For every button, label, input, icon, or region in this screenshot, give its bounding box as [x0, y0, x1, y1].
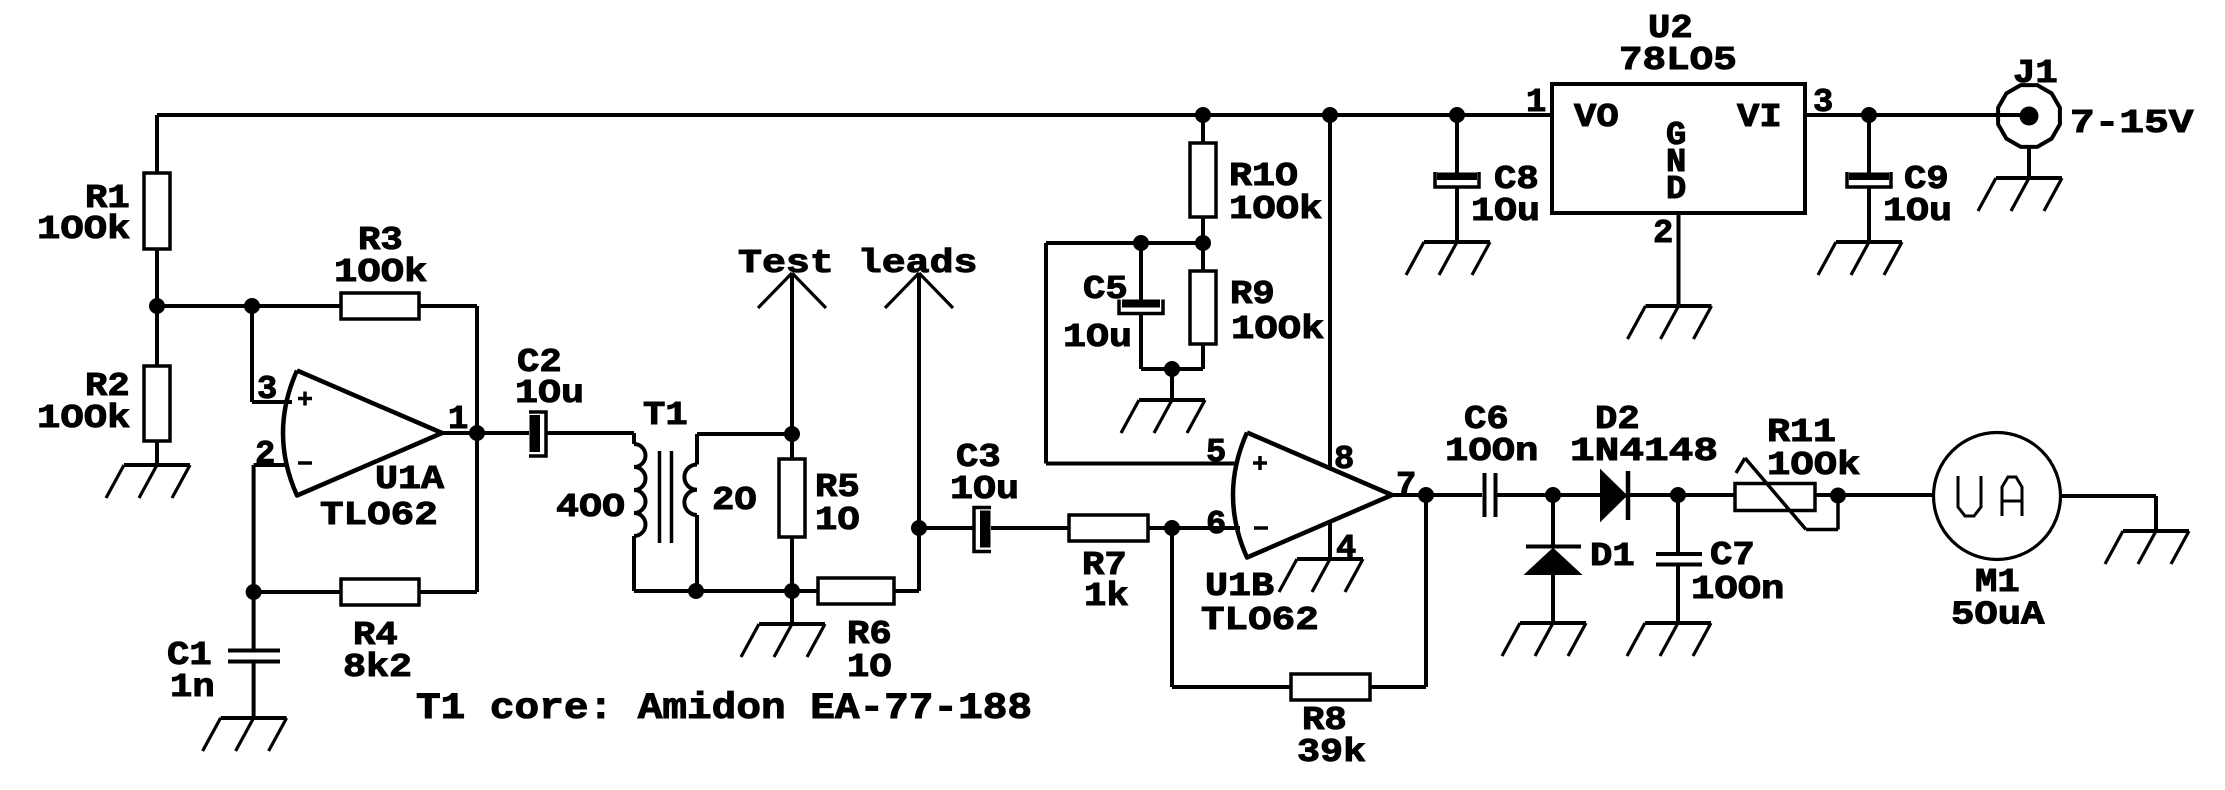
svg-text:R11: R11 [1767, 414, 1836, 451]
svg-text:7: 7 [1396, 467, 1416, 504]
svg-text:D1: D1 [1590, 538, 1635, 575]
svg-text:1O: 1O [815, 502, 860, 539]
svg-text:1OOn: 1OOn [1445, 433, 1538, 470]
svg-text:8k2: 8k2 [343, 649, 412, 686]
svg-text:5: 5 [1206, 434, 1226, 471]
svg-text:R5: R5 [815, 469, 860, 506]
svg-text:R9: R9 [1230, 276, 1275, 313]
svg-text:U1A: U1A [375, 461, 444, 498]
svg-text:1OOk: 1OOk [37, 211, 130, 248]
svg-text:TLO62: TLO62 [1201, 602, 1319, 639]
svg-text:1OOn: 1OOn [1691, 571, 1784, 608]
svg-text:C7: C7 [1710, 537, 1755, 574]
svg-text:1OOk: 1OOk [1767, 447, 1860, 484]
svg-text:1OOk: 1OOk [37, 400, 130, 437]
svg-text:R1O: R1O [1229, 158, 1298, 195]
svg-text:2: 2 [255, 436, 275, 473]
svg-text:4OO: 4OO [556, 489, 625, 526]
svg-text:2: 2 [1653, 215, 1673, 252]
svg-text:VI: VI [1737, 99, 1782, 136]
svg-text:D: D [1666, 171, 1686, 208]
svg-text:1Ou: 1Ou [950, 471, 1019, 508]
svg-text:1O: 1O [847, 649, 892, 686]
svg-text:Test leads: Test leads [738, 245, 978, 282]
svg-text:J1: J1 [2013, 55, 2058, 92]
svg-text:U1B: U1B [1205, 568, 1274, 605]
svg-text:1: 1 [448, 401, 468, 438]
svg-text:T1: T1 [643, 397, 688, 434]
svg-text:1Ou: 1Ou [1883, 193, 1952, 230]
svg-text:1N4148: 1N4148 [1570, 433, 1718, 470]
svg-text:1Ou: 1Ou [515, 375, 584, 412]
svg-text:7-15V: 7-15V [2070, 105, 2194, 142]
svg-text:39k: 39k [1297, 734, 1366, 771]
svg-text:4: 4 [1336, 530, 1356, 567]
svg-text:1OOk: 1OOk [334, 254, 427, 291]
svg-text:8: 8 [1334, 441, 1354, 478]
svg-text:1OOk: 1OOk [1229, 191, 1322, 228]
svg-text:2O: 2O [712, 482, 757, 519]
svg-text:1OOk: 1OOk [1231, 311, 1324, 348]
svg-text:C5: C5 [1083, 271, 1128, 308]
svg-text:3: 3 [1813, 84, 1833, 121]
svg-text:TLO62: TLO62 [320, 497, 438, 534]
svg-text:1Ou: 1Ou [1063, 319, 1132, 356]
svg-text:R6: R6 [847, 616, 892, 653]
svg-text:3: 3 [257, 371, 277, 408]
svg-text:1Ou: 1Ou [1471, 193, 1540, 230]
svg-text:5OuA: 5OuA [1951, 597, 2045, 634]
svg-text:VO: VO [1574, 99, 1619, 136]
svg-text:1k: 1k [1084, 578, 1129, 615]
svg-text:M1: M1 [1975, 564, 2020, 601]
svg-text:78LO5: 78LO5 [1619, 42, 1737, 79]
svg-text:1: 1 [1526, 84, 1546, 121]
svg-text:6: 6 [1206, 506, 1226, 543]
svg-text:1n: 1n [170, 669, 215, 706]
svg-text:T1 core: Amidon EA-77-188: T1 core: Amidon EA-77-188 [416, 688, 1032, 730]
